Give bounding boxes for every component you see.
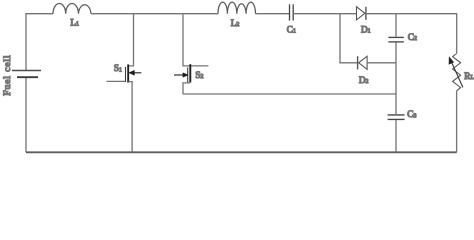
svg-text:L2: L2 [231,18,240,28]
wire D1 to C2 node [366,13,396,15]
wire S2 drain stub [182,65,208,67]
transistor S2 [174,14,208,94]
wire D2 row left [339,62,357,64]
svg-text:S1: S1 [114,63,122,73]
S2 gate arrow [174,74,184,76]
capacitor C3 [388,115,405,152]
wire C1 to D1 [293,13,356,15]
wire S2 drain [182,14,184,66]
inductor L1 [53,4,91,14]
svg-text:C2: C2 [408,32,417,42]
wire L2 to C1 [256,13,290,15]
wire S2 source rail [183,93,396,95]
transistor S1 [107,14,142,153]
RL variable arrow [449,57,463,88]
inductor L2 [218,2,256,14]
wire [25,14,27,71]
svg-text:L1: L1 [70,18,79,28]
capacitor C1 [290,4,294,20]
svg-text:D1: D1 [361,24,371,34]
fuel cell V1 [12,14,41,153]
svg-text:RL: RL [464,71,474,81]
svg-text:C1: C1 [287,24,296,34]
diode D1 [357,7,366,20]
wire top rail L1 to L2 [91,13,218,15]
wire S1 drain [128,14,133,66]
wire S1 source [128,82,132,153]
wire top rail left [25,13,53,15]
svg-text:D2: D2 [359,75,369,85]
svg-text:S2: S2 [195,70,203,80]
wire C2 node to right corner [396,13,457,15]
wire S2 source [183,83,190,94]
wire [25,77,27,152]
resistor RL [453,54,461,91]
wire S1 gate lead [107,80,126,82]
wire D2 to C column [367,62,396,64]
wire [395,43,397,115]
capacitor C2 [388,14,403,115]
wire branch down to D2 row [339,14,341,63]
wire right column bottom [456,91,458,153]
svg-text:C3: C3 [407,109,416,119]
S1 body arrow [133,72,141,74]
wire [395,14,397,37]
wire [395,120,397,152]
wire bottom rail [26,151,457,153]
wire right column top [456,13,458,53]
svg-text:Fuel cell: Fuel cell [2,55,13,96]
diode D2 [358,56,368,69]
